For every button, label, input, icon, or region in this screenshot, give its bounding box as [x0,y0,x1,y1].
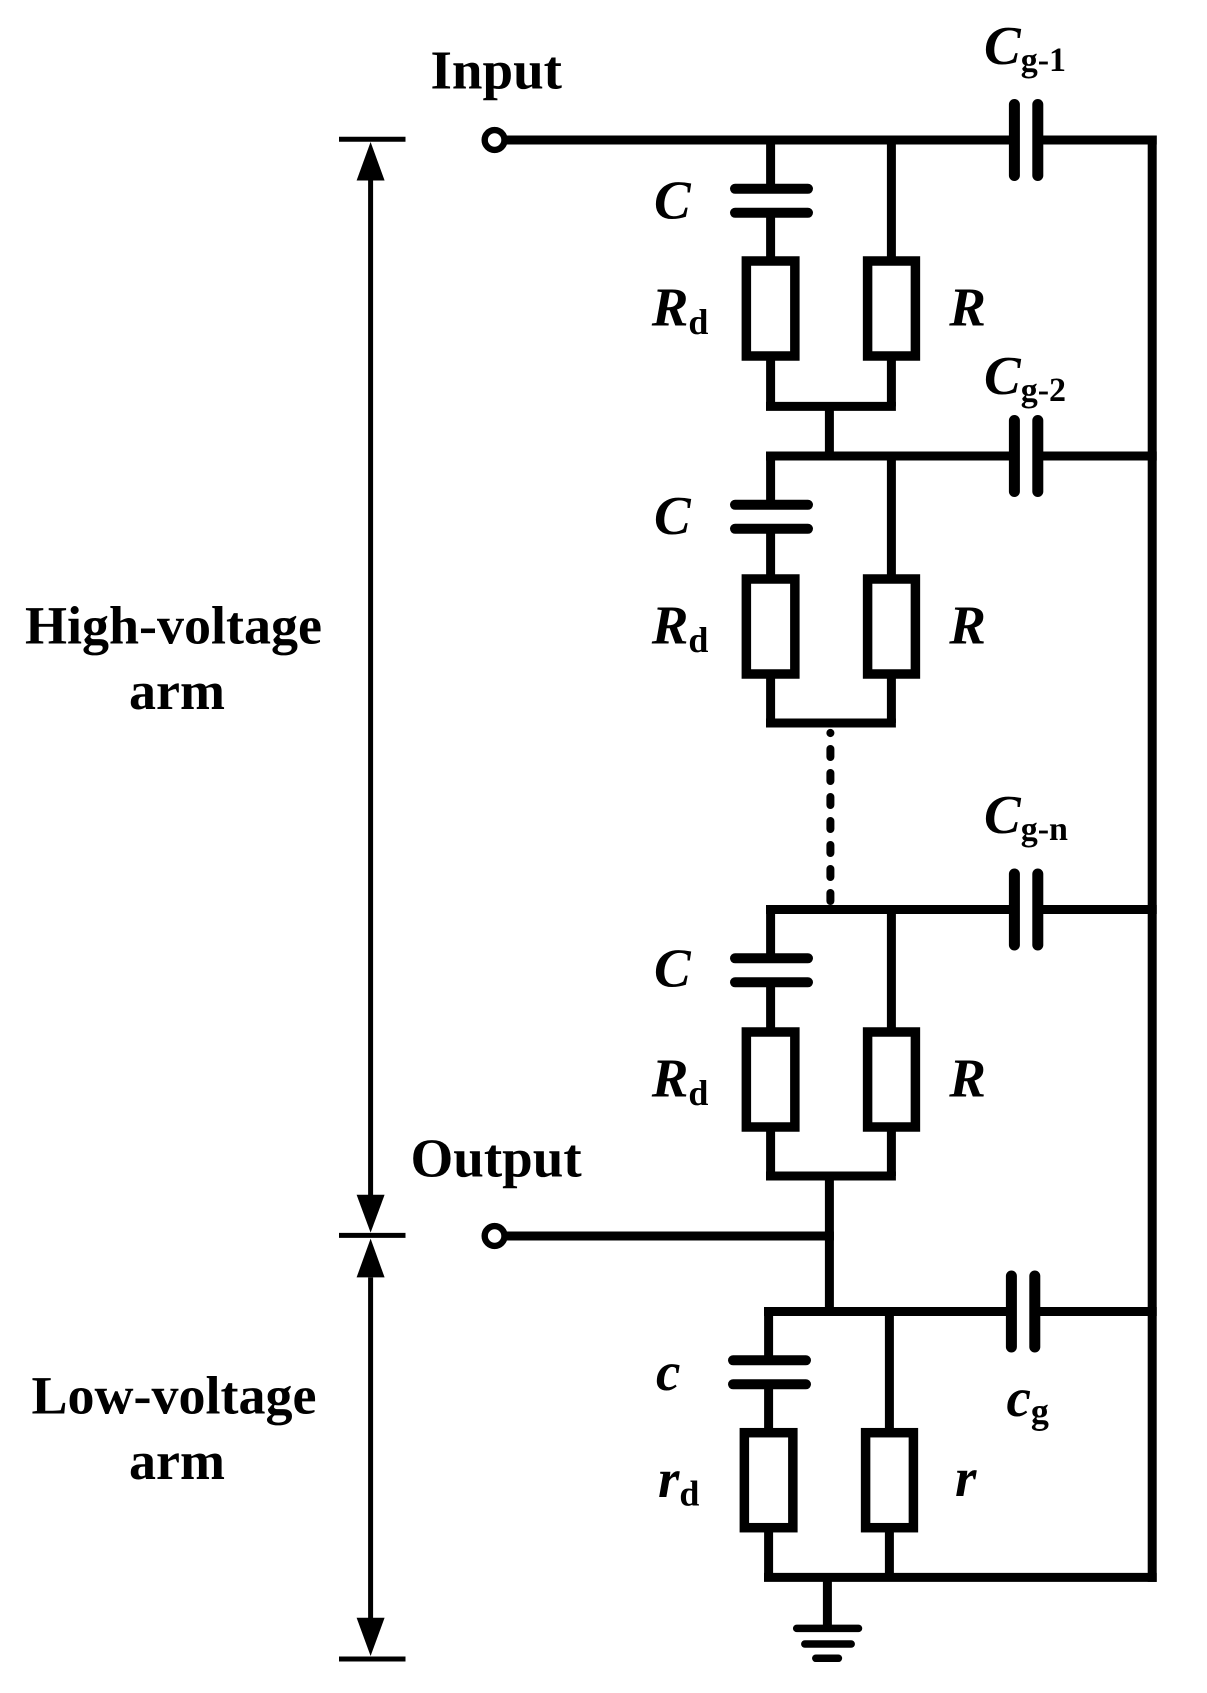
arrowhead down at bottom tick [357,1618,385,1656]
resistor R stage2 [868,579,916,674]
dimension line low-voltage arm [368,1278,373,1620]
arrowhead down at middle tick [357,1195,385,1233]
wire LV C top lead [764,1312,773,1363]
svg-text:cg: cg [1007,1367,1049,1431]
svg-text:Rd: Rd [651,595,709,660]
wire stage2 C to Rd lead [766,527,775,579]
svg-text:Rd: Rd [651,1048,709,1113]
svg-text:Cg-2: Cg-2 [984,345,1066,409]
capacitor Cg-n plates [1009,874,1020,945]
wire stage3 coupling cap right to bus [1042,905,1157,914]
wire stage1 R top lead [887,140,896,261]
wire stage1 Rd bottom lead [766,356,775,407]
wire stage3 R top lead [887,910,896,1033]
wire junction stub stage1-stage2 [825,402,834,461]
svg-text:Low-voltage: Low-voltage [32,1365,317,1425]
resistor Rd stage2 [746,579,795,674]
resistor Rd stage3 [746,1032,795,1127]
wire stage3 C top lead [766,910,775,961]
wire stage3 bottom node [766,1172,896,1181]
svg-text:c: c [656,1341,680,1402]
dimension tick top [339,137,406,142]
svg-text:arm: arm [129,661,225,721]
svg-text:r: r [955,1447,977,1508]
wire LV C to Rd lead [764,1382,773,1433]
capacitor Cg-1 plates [1009,105,1020,176]
svg-text:arm: arm [129,1431,225,1491]
svg-text:Input: Input [431,39,563,100]
svg-text:Cg-1: Cg-1 [984,15,1066,79]
svg-text:Output: Output [411,1127,583,1188]
svg-text:C: C [654,938,692,999]
ground symbol [797,1628,859,1658]
arrowhead up below middle tick [357,1239,385,1278]
dimension tick bottom [339,1657,406,1662]
wire stage3 R bottom lead [887,1127,896,1176]
capacitor Cg-2 plates [1009,421,1020,492]
wire stage1 bottom node [766,402,896,411]
wire stage2 R top lead [887,456,896,579]
terminal Input [485,130,505,150]
capacitor C stage2 plates [735,500,808,510]
svg-text:Cg-n: Cg-n [984,784,1068,848]
svg-text:C: C [654,169,692,230]
capacitor c LV plates [733,1355,806,1365]
resistor Rd stage1 [746,261,795,356]
wire LV Rd bottom lead [764,1527,773,1577]
wire ground stub [823,1577,832,1625]
wire right coupling bus [1148,136,1157,1582]
arrowhead up at top tick [357,142,385,181]
wire LV top node [764,1307,1006,1316]
svg-text:R: R [948,277,986,338]
svg-text:R: R [948,1048,986,1109]
capacitor C stage1 plates [735,184,808,194]
wire junction stub stage3-output-LV [825,1172,834,1317]
wire stage3 Rd bottom lead [766,1127,775,1176]
resistor r LV [866,1433,914,1528]
wire LV bottom node [764,1573,1157,1582]
resistor R stage1 [868,261,916,356]
capacitor cg plates [1006,1276,1017,1347]
wire output lead [505,1232,834,1241]
wire stage1 C top lead [766,140,775,191]
svg-text:R: R [948,595,986,656]
svg-text:rd: rd [658,1448,699,1514]
svg-text:Rd: Rd [651,277,709,342]
wire stage2 top node [766,452,1009,461]
wire dashed stub stage2-stage3 [826,729,834,737]
wire stage1 R bottom lead [887,356,896,407]
wire LV coupling cap right to bus [1039,1307,1157,1316]
wire stage2 coupling cap right to bus [1042,452,1157,461]
wire LV R bottom lead [885,1527,894,1577]
wire stage2 C top lead [766,456,775,507]
capacitor C stage3 plates [735,953,808,963]
resistor R stage3 [868,1032,916,1127]
svg-text:High-voltage: High-voltage [25,595,322,655]
wire stage2 Rd bottom lead [766,674,775,723]
wire stage3 C to Rd lead [766,980,775,1032]
wire LV R top lead [885,1312,894,1433]
svg-text:C: C [654,485,692,546]
wire stage2 bottom node [766,719,896,728]
wire stage3 top node [766,905,1009,914]
wire stage2 R bottom lead [887,674,896,723]
dimension line high-voltage arm [368,180,373,1196]
wire Cg-1 right to bus [1042,136,1157,145]
resistor rd LV [744,1433,793,1528]
dimension tick middle [339,1233,406,1238]
wire stage1 C to Rd lead [766,211,775,261]
terminal Output [485,1226,505,1246]
wire input top node [505,136,1009,145]
